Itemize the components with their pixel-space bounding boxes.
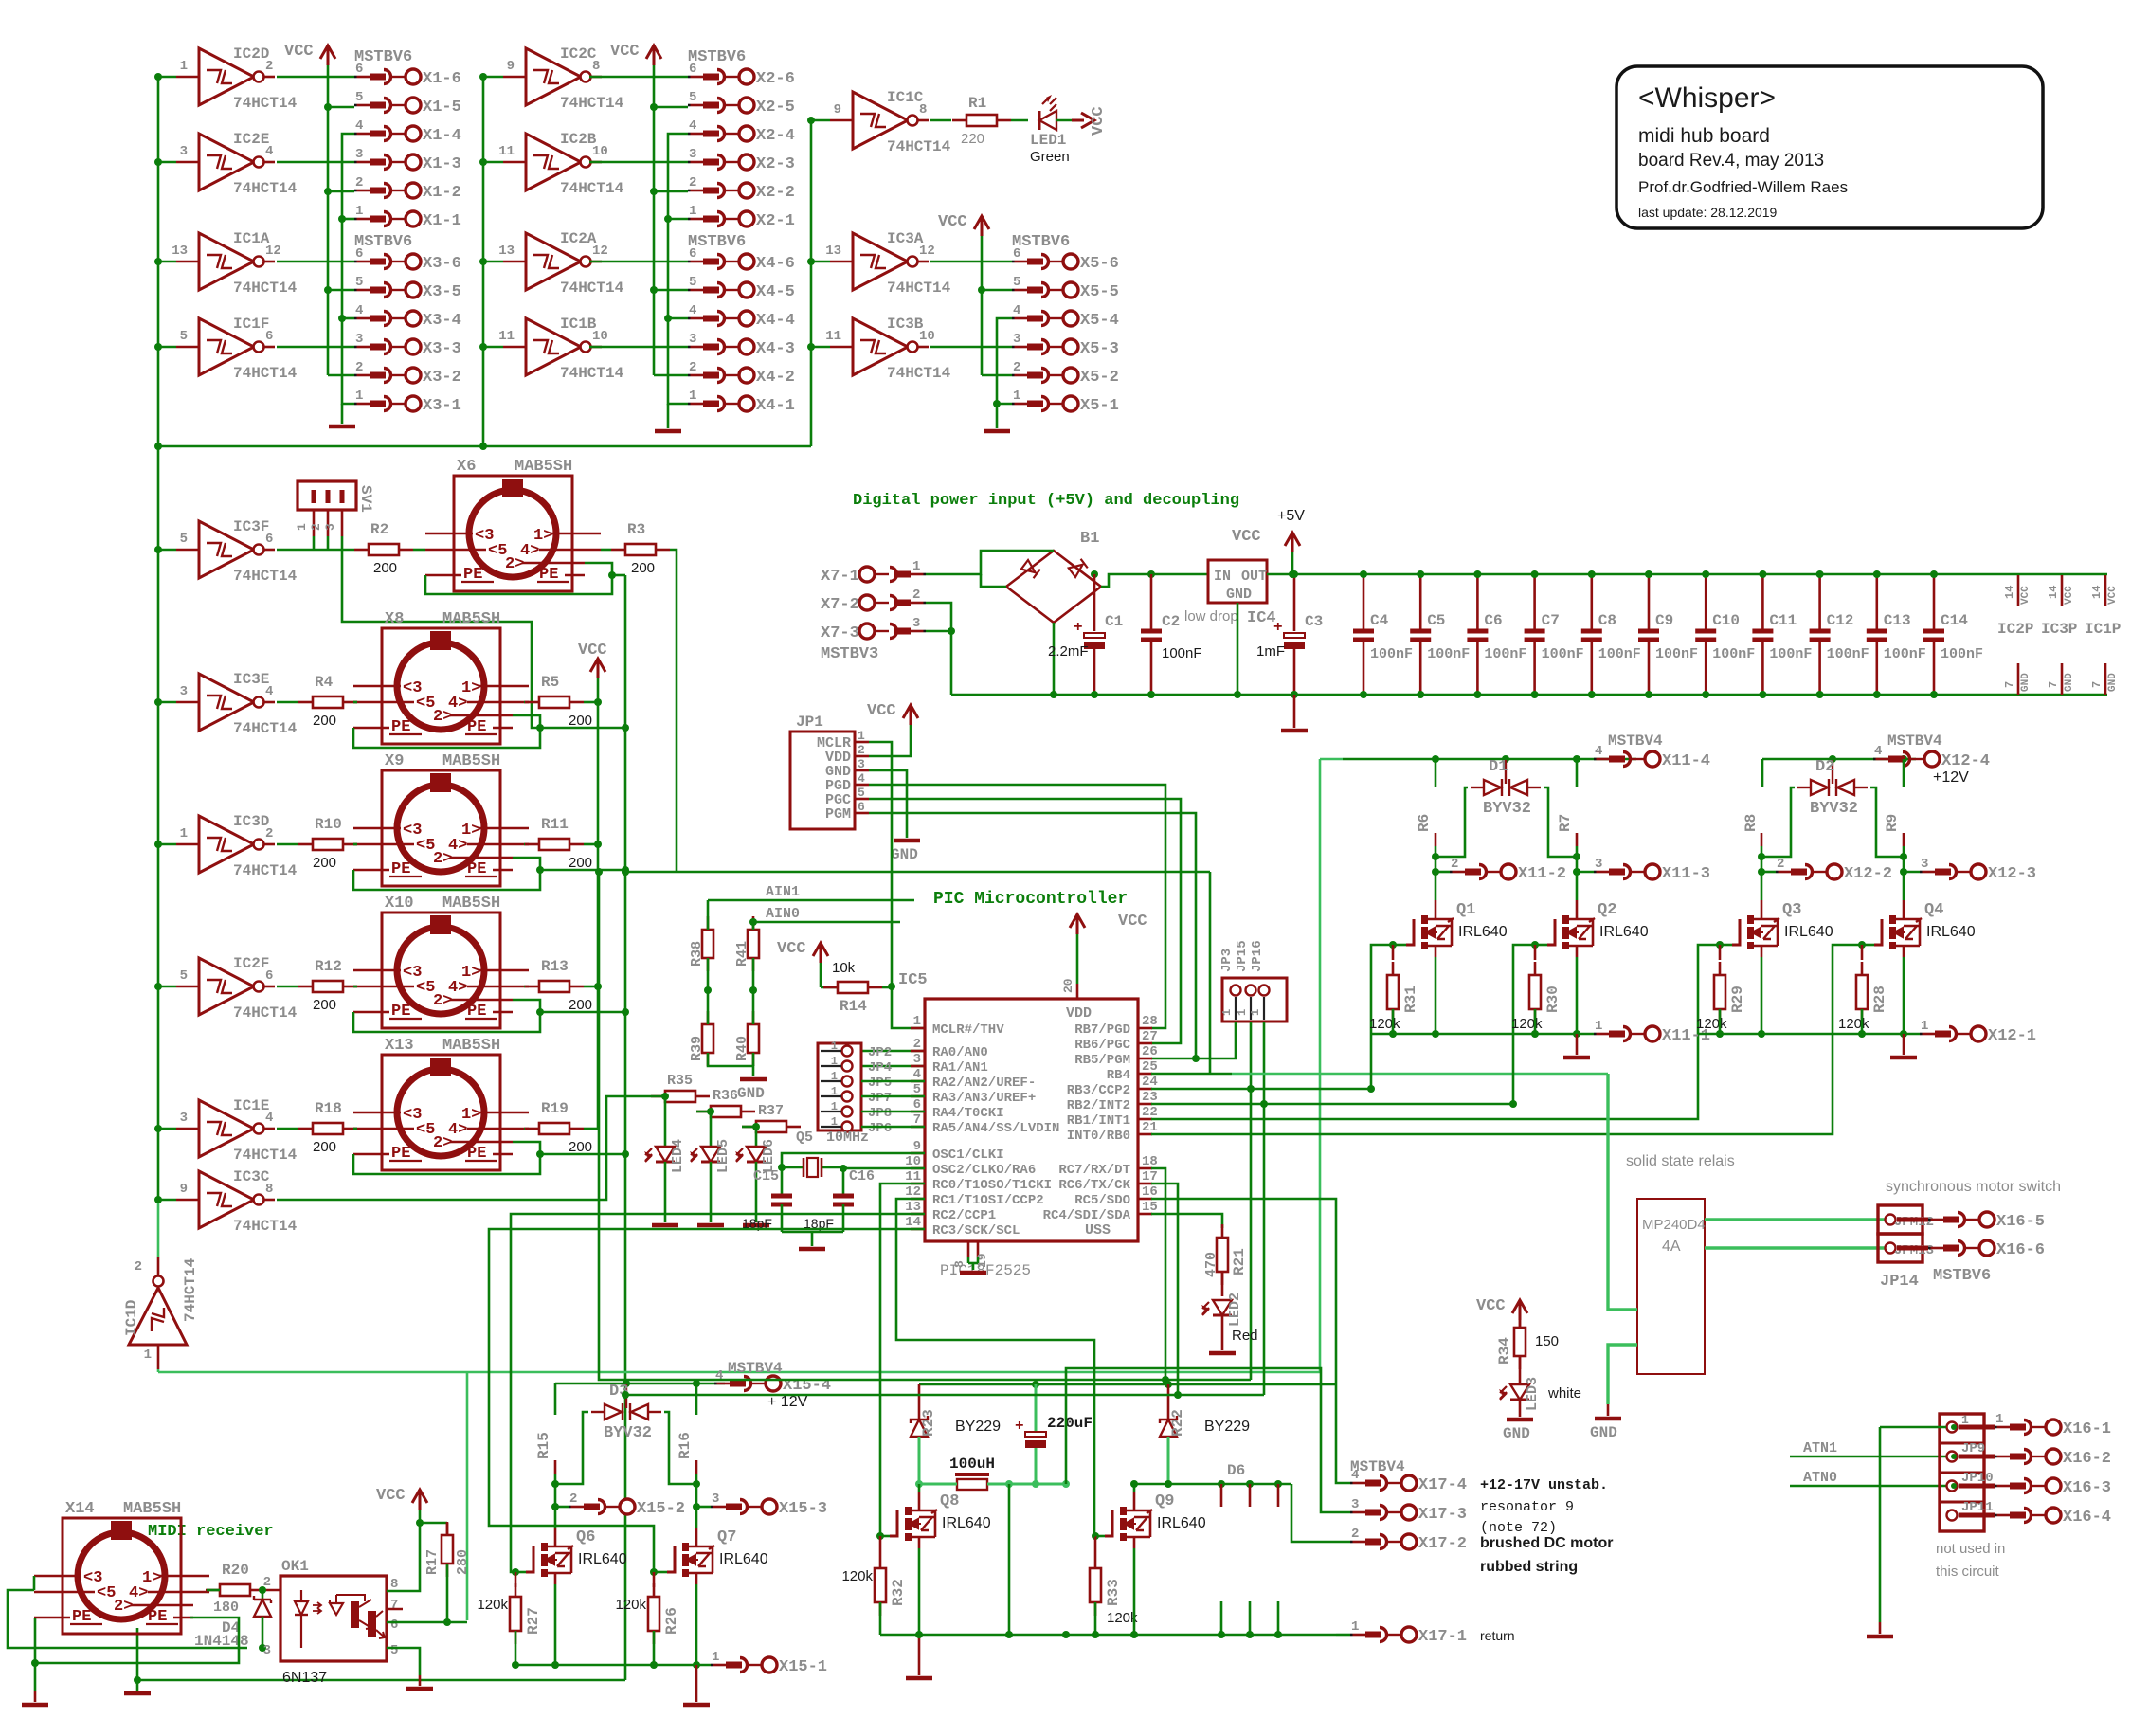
wire JP1 GND	[869, 770, 907, 838]
wire RB2 to Q2 gate	[1151, 945, 1537, 1108]
svg-text:74HCT14: 74HCT14	[233, 1004, 298, 1022]
svg-text:MAB5SH: MAB5SH	[442, 752, 500, 770]
wire X14 pin3 pin5 join	[8, 1576, 247, 1648]
svg-text:IC1C: IC1C	[887, 89, 924, 106]
svg-text:R33: R33	[1105, 1579, 1122, 1606]
resistor R12	[298, 958, 357, 1013]
svg-text:100nF: 100nF	[1655, 646, 1698, 662]
wire inverter to R10	[277, 843, 298, 846]
wire input bus bank1	[154, 77, 811, 1200]
wire Q2 gnd	[1576, 1034, 1579, 1055]
wire Q3 source	[1761, 957, 1763, 1034]
connector pin X2-5	[688, 90, 795, 117]
svg-text:6: 6	[355, 246, 363, 262]
resistor R18	[298, 1100, 357, 1155]
svg-text:74HCT14: 74HCT14	[233, 1147, 298, 1164]
svg-text:1: 1	[831, 1115, 838, 1129]
svg-text:R23: R23	[920, 1409, 937, 1437]
wire X16 gnd	[1879, 1427, 1882, 1634]
svg-text:13: 13	[905, 1200, 921, 1215]
wire X15 bottom rail	[512, 1661, 711, 1669]
svg-text:1: 1	[1249, 1009, 1262, 1016]
svg-text:IC1B: IC1B	[560, 316, 597, 333]
wire OSC1	[782, 1153, 925, 1194]
connector pin X2-2	[688, 175, 795, 202]
wire JP1 VDD	[869, 725, 911, 756]
wire Q4 gnd	[1903, 1034, 1905, 1055]
svg-text:120k: 120k	[1838, 1016, 1869, 1032]
svg-text:3: 3	[1921, 857, 1928, 872]
capacitor C9	[1638, 570, 1698, 698]
svg-text:X4-4: X4-4	[756, 312, 795, 330]
wire JP6 row	[861, 1126, 925, 1129]
label MSTBV6 JP14	[1933, 1267, 1991, 1285]
svg-text:AIN0: AIN0	[766, 906, 800, 922]
svg-text:solid state relais: solid state relais	[1626, 1153, 1735, 1169]
svg-text:IRL640: IRL640	[1157, 1515, 1206, 1531]
svg-text:C8: C8	[1598, 612, 1616, 629]
wire X12 bottom rail	[1698, 1030, 1920, 1038]
svg-text:74HCT14: 74HCT14	[887, 138, 951, 155]
svg-text:200: 200	[373, 560, 397, 576]
svg-text:C11: C11	[1769, 612, 1797, 629]
svg-text:6: 6	[913, 1097, 921, 1112]
wire inverter output	[589, 161, 688, 164]
wire VCC bus bank2	[650, 65, 688, 375]
svg-text:IC2E: IC2E	[233, 131, 269, 148]
svg-text:100nF: 100nF	[1769, 646, 1812, 662]
svg-text:200: 200	[631, 560, 655, 576]
wire DIN PE loop y813	[353, 858, 625, 890]
svg-text:120k: 120k	[1696, 1016, 1727, 1032]
inverter IC3F	[154, 518, 298, 585]
svg-text:C3: C3	[1305, 613, 1323, 630]
svg-text:74HCT14: 74HCT14	[233, 862, 298, 879]
wire inverter output	[589, 261, 688, 263]
wire IC4 out rail	[1267, 570, 2107, 578]
svg-text:C6: C6	[1484, 612, 1502, 629]
svg-text:X16-4: X16-4	[2063, 1509, 2111, 1527]
capacitor C1	[1048, 570, 1123, 698]
svg-text:RB3/CCP2: RB3/CCP2	[1067, 1083, 1130, 1098]
power VCC arrow JP1	[867, 702, 918, 725]
svg-text:RA2/AN2/UREF-: RA2/AN2/UREF-	[932, 1076, 1036, 1091]
svg-text:4: 4	[913, 1067, 921, 1082]
svg-text:21: 21	[1142, 1120, 1158, 1135]
wire inverter output	[277, 261, 354, 263]
wire crystal gnd	[782, 1232, 843, 1246]
wire PE bus to X14	[134, 1628, 625, 1691]
svg-text:5: 5	[180, 329, 188, 344]
connector pin X11-3	[1577, 857, 1710, 883]
svg-text:2: 2	[912, 588, 920, 603]
svg-text:1: 1	[180, 59, 188, 74]
svg-text:X1-1: X1-1	[423, 212, 461, 230]
wire RC5 SDO	[1151, 1199, 1336, 1384]
wire R4 to DIN	[353, 701, 357, 704]
svg-text:X17-2: X17-2	[1418, 1535, 1467, 1553]
svg-text:13: 13	[825, 244, 841, 259]
DIN connector X10	[353, 895, 529, 1028]
wire relais out1	[1705, 1218, 1885, 1221]
wire R12 to DIN	[353, 986, 357, 988]
svg-text:JP8: JP8	[868, 1106, 892, 1121]
svg-text:2: 2	[1013, 360, 1020, 375]
wire inverter output	[930, 346, 1012, 349]
wire R37 in	[742, 1126, 756, 1129]
connector JP2 block	[818, 1040, 892, 1136]
svg-text:2: 2	[309, 523, 323, 531]
wire D3 left	[555, 1412, 588, 1484]
svg-text:4: 4	[1013, 303, 1020, 318]
svg-text:C10: C10	[1712, 612, 1740, 629]
wire inverter to R12	[277, 986, 298, 988]
svg-text:24: 24	[1142, 1075, 1158, 1090]
wire R35 in	[277, 1096, 665, 1200]
svg-text:120k: 120k	[1369, 1016, 1400, 1032]
svg-text:5: 5	[689, 275, 696, 290]
wire X11 rail	[1320, 755, 1636, 763]
svg-text:1: 1	[689, 204, 696, 219]
connector pin X16-5	[1897, 1212, 2045, 1231]
svg-text:1: 1	[912, 559, 920, 574]
capacitor C12	[1810, 570, 1869, 698]
svg-text:C14: C14	[1941, 612, 1968, 629]
label ATN1	[1790, 1440, 1946, 1456]
label AIN0	[753, 906, 900, 930]
svg-text:5: 5	[1013, 275, 1020, 290]
svg-text:X5-3: X5-3	[1080, 340, 1119, 358]
ground Q7	[683, 1703, 710, 1708]
svg-text:MSTBV6: MSTBV6	[1933, 1267, 1991, 1285]
svg-text:11: 11	[498, 329, 515, 344]
svg-text:X14: X14	[65, 1500, 95, 1518]
wire D1 right	[1544, 787, 1577, 857]
wire inverter output	[277, 346, 354, 349]
svg-text:1: 1	[689, 389, 696, 404]
power VCC right IC1C	[1072, 106, 1108, 136]
wire RB3 to Q1 gate	[1151, 945, 1395, 1093]
svg-text:JP2: JP2	[868, 1045, 892, 1060]
svg-text:IC2C: IC2C	[560, 45, 597, 63]
svg-text:JP6: JP6	[868, 1121, 892, 1136]
svg-text:VCC: VCC	[1090, 106, 1108, 136]
wire Q2 drain node	[1573, 853, 1580, 900]
ground LED4	[652, 1223, 678, 1228]
wire Q9 drain row	[1130, 1480, 1291, 1488]
svg-text:R20: R20	[222, 1562, 249, 1579]
svg-text:MP240D4: MP240D4	[1642, 1217, 1706, 1233]
wire RX vertical right	[1209, 872, 1212, 1074]
wire R38 R39 junction	[704, 958, 712, 1024]
wire Q3 gate	[1716, 941, 1732, 949]
section label power	[853, 492, 1239, 510]
ground Q8	[906, 1676, 932, 1681]
svg-text:JP4: JP4	[868, 1060, 892, 1076]
wire R14 to MCLR	[882, 986, 892, 989]
svg-text:low drop: low drop	[1184, 608, 1238, 624]
svg-text:15: 15	[1142, 1200, 1158, 1215]
resistor R30	[1511, 945, 1562, 1034]
svg-text:120k: 120k	[477, 1597, 508, 1613]
svg-text:this circuit: this circuit	[1936, 1564, 2000, 1580]
svg-text:14: 14	[2090, 586, 2104, 599]
svg-text:1: 1	[1921, 1019, 1928, 1034]
svg-text:4: 4	[355, 303, 363, 318]
connector pin X16-4	[1959, 1508, 2111, 1527]
svg-text:R6: R6	[1416, 814, 1433, 832]
svg-text:X3-2: X3-2	[423, 369, 461, 387]
svg-text:X2-2: X2-2	[756, 184, 795, 202]
svg-text:RC7/RX/DT: RC7/RX/DT	[1058, 1163, 1130, 1178]
svg-text:3: 3	[689, 147, 696, 162]
svg-text:JPM12: JPM12	[1894, 1215, 1934, 1230]
LED LED6	[735, 1127, 777, 1173]
svg-text:X17-3: X17-3	[1418, 1506, 1467, 1524]
svg-text:4: 4	[1874, 744, 1882, 759]
wire RC0 to Q8 gate	[880, 1184, 925, 1536]
svg-text:VCC: VCC	[1118, 913, 1147, 931]
svg-text:1N4148: 1N4148	[194, 1633, 249, 1650]
optocoupler OK1	[280, 1558, 387, 1686]
capacitor 220uF	[1015, 1384, 1093, 1488]
capacitor C6	[1467, 570, 1526, 698]
svg-text:X2-1: X2-1	[756, 212, 795, 230]
svg-text:4: 4	[715, 1368, 723, 1383]
svg-text:C9: C9	[1655, 612, 1673, 629]
svg-text:IC1D: IC1D	[123, 1300, 140, 1336]
label R2	[370, 521, 397, 576]
connector X7 label	[821, 645, 878, 663]
capacitor C2	[1141, 574, 1202, 698]
svg-text:25: 25	[1142, 1059, 1158, 1075]
svg-text:R19: R19	[541, 1100, 569, 1117]
svg-text:D2: D2	[1815, 758, 1834, 776]
wire OK1 pin5 gnd	[387, 1648, 420, 1686]
svg-text:IRL640: IRL640	[719, 1551, 768, 1567]
wire OK1 pin7 stub	[387, 1608, 403, 1611]
svg-text:180: 180	[213, 1600, 239, 1616]
wire X6 PE loop	[425, 563, 625, 594]
wire RX net	[595, 868, 1251, 1383]
svg-text:2: 2	[858, 743, 865, 757]
svg-text:BY229: BY229	[1204, 1419, 1250, 1435]
wire B1 plus to IC4	[1101, 570, 1208, 587]
svg-text:200: 200	[569, 855, 592, 871]
svg-text:100nF: 100nF	[1542, 646, 1584, 662]
wire Q7 gate	[650, 1568, 667, 1576]
ground bank1	[329, 425, 355, 429]
wire JP8 row	[861, 1111, 925, 1113]
wire Q2 gate	[1531, 941, 1547, 949]
svg-text:6: 6	[689, 246, 696, 262]
wire VCC bus X5	[978, 236, 1012, 375]
wire JP15 to RB3	[1247, 1022, 1255, 1380]
svg-text:IC3C: IC3C	[233, 1168, 270, 1185]
svg-text:X5-5: X5-5	[1080, 283, 1119, 301]
svg-text:1: 1	[831, 1055, 838, 1068]
capacitor C13	[1867, 570, 1926, 698]
wire SV1 pin3 down	[342, 550, 540, 728]
svg-text:2: 2	[1777, 857, 1784, 872]
connector pin X3-4	[354, 303, 461, 330]
inverter IC2E	[154, 131, 298, 197]
wire X17-4 feed	[1336, 1384, 1350, 1483]
svg-text:R27: R27	[525, 1607, 542, 1635]
svg-text:4: 4	[689, 118, 696, 134]
resistor R21	[1203, 1224, 1248, 1296]
ground X14 shield	[124, 1691, 151, 1696]
svg-text:1: 1	[180, 826, 188, 841]
svg-text:RA1/AN1: RA1/AN1	[932, 1060, 988, 1076]
connector pin X1-6	[354, 62, 461, 88]
label AIN1	[708, 884, 914, 930]
svg-text:IRL640: IRL640	[942, 1515, 991, 1531]
svg-text:74HCT14: 74HCT14	[887, 365, 951, 382]
svg-text:GND: GND	[2064, 673, 2075, 692]
connector pin X4-3	[688, 332, 795, 358]
svg-text:BY229: BY229	[955, 1419, 1001, 1435]
svg-text:synchronous motor switch: synchronous motor switch	[1886, 1179, 2061, 1195]
wire IC3F out to SV1	[277, 536, 354, 550]
inverter IC3E	[154, 671, 298, 737]
svg-text:LED3: LED3	[1525, 1377, 1541, 1411]
svg-text:1: 1	[1351, 1619, 1359, 1635]
wire R36 in	[696, 1111, 711, 1113]
DIN connector X8	[353, 610, 529, 744]
wire X16-1 feed	[1880, 1424, 1957, 1489]
svg-text:RC4/SDI/SDA: RC4/SDI/SDA	[1043, 1208, 1131, 1223]
wire Q8 source	[918, 1548, 921, 1635]
svg-text:VCC: VCC	[2064, 586, 2075, 605]
svg-text:LED5: LED5	[715, 1139, 731, 1173]
svg-text:IC3D: IC3D	[233, 813, 269, 830]
wire IC4 GND	[1234, 603, 1241, 698]
svg-text:2: 2	[1351, 1527, 1359, 1542]
svg-text:RB5/PGM: RB5/PGM	[1074, 1053, 1130, 1068]
diode array D6 stubs	[1221, 1484, 1278, 1635]
resistor R28	[1838, 945, 1888, 1034]
svg-text:R41: R41	[734, 941, 750, 967]
wire Q6 source	[554, 1584, 557, 1665]
svg-text:6: 6	[1013, 246, 1020, 262]
svg-text:ATN1: ATN1	[1803, 1440, 1837, 1456]
LED LED3	[1499, 1377, 1581, 1417]
svg-text:R28: R28	[1871, 986, 1888, 1013]
wire R18 to DIN	[353, 1128, 357, 1130]
svg-text:200: 200	[313, 855, 336, 871]
svg-text:X2-6: X2-6	[756, 70, 795, 88]
svg-text:rubbed string: rubbed string	[1480, 1559, 1578, 1575]
svg-text:100nF: 100nF	[1884, 646, 1926, 662]
svg-text:IC2B: IC2B	[560, 131, 597, 148]
svg-text:R30: R30	[1544, 986, 1562, 1013]
svg-text:18: 18	[1142, 1154, 1158, 1169]
wire R41 R40 junction	[749, 918, 757, 1024]
diode R23 BY229	[911, 1384, 1001, 1484]
svg-text:74HCT14: 74HCT14	[233, 95, 298, 112]
svg-text:2>: 2>	[433, 850, 452, 868]
ground relais	[1590, 1419, 1621, 1441]
svg-text:R29: R29	[1729, 986, 1746, 1013]
svg-text:VCC: VCC	[1476, 1297, 1506, 1315]
resistor R41	[734, 916, 759, 971]
wire DIN to R11	[524, 843, 525, 846]
resistor R34	[1496, 1314, 1559, 1384]
connector pin X3-5	[354, 275, 461, 301]
connector pin X3-2	[354, 360, 461, 387]
svg-text:5: 5	[355, 90, 363, 105]
svg-text:1: 1	[1995, 1412, 2003, 1427]
svg-text:IC4: IC4	[1247, 609, 1276, 627]
bridge rectifier B1	[1006, 530, 1101, 623]
svg-text:22: 22	[1142, 1105, 1158, 1120]
power pins IC2P	[1997, 575, 2033, 695]
svg-text:R12: R12	[315, 958, 342, 975]
power VCC arrow OK1	[376, 1487, 427, 1510]
svg-text:X16-5: X16-5	[1996, 1213, 2045, 1231]
svg-text:+12-17V unstab.: +12-17V unstab.	[1480, 1477, 1608, 1493]
svg-text:74HCT14: 74HCT14	[560, 95, 624, 112]
svg-text:X2-5: X2-5	[756, 99, 795, 117]
svg-text:100nF: 100nF	[1712, 646, 1755, 662]
svg-text:BYV32: BYV32	[1483, 800, 1531, 818]
svg-text:+: +	[1273, 619, 1283, 636]
svg-text:MAB5SH: MAB5SH	[442, 895, 500, 913]
svg-text:13: 13	[498, 244, 515, 259]
ground LED6	[743, 1223, 769, 1228]
svg-text:RB7/PGD: RB7/PGD	[1074, 1022, 1130, 1038]
wire DIN PE loop y963	[353, 1000, 625, 1032]
wire relais control	[1608, 1074, 1637, 1310]
inverter IC1B	[479, 316, 624, 382]
wire X7-1 to B1	[926, 551, 1054, 587]
svg-text:VCC: VCC	[284, 43, 314, 61]
wire bus to IC1D	[157, 1200, 160, 1257]
power VCC arrow bank1	[284, 43, 335, 65]
wire X6 pin4 to R3	[601, 549, 611, 552]
svg-text:+ 12V: + 12V	[767, 1394, 808, 1410]
transistor Q3	[1732, 900, 1833, 957]
svg-text:R26: R26	[663, 1607, 680, 1635]
LED LED5	[690, 1112, 731, 1173]
svg-text:1: 1	[831, 1100, 838, 1113]
wire Q7 drain node	[693, 1480, 700, 1528]
svg-text:X17-4: X17-4	[1418, 1476, 1467, 1494]
label solid state relais	[1626, 1153, 1735, 1169]
svg-text:R2: R2	[370, 521, 388, 538]
svg-text:14: 14	[2003, 586, 2016, 599]
wire Q4 gate	[1858, 941, 1874, 949]
svg-text:R34: R34	[1496, 1337, 1513, 1365]
wire 220uF return	[1008, 1484, 1011, 1635]
connector pin X11-1	[1594, 1019, 1710, 1045]
svg-text:1mF: 1mF	[1256, 643, 1285, 660]
svg-text:VCC: VCC	[376, 1487, 406, 1505]
connector pin X4-4	[688, 303, 795, 330]
wire inverter to R4	[277, 701, 298, 704]
svg-text:X3-3: X3-3	[423, 340, 461, 358]
connector pin X4-1	[688, 389, 795, 415]
solid state relay MP240D4	[1637, 1199, 1706, 1374]
svg-text:LED4: LED4	[670, 1139, 686, 1173]
svg-text:X8: X8	[385, 610, 404, 628]
wire DIN to R19	[524, 1128, 525, 1130]
wire Q2 source	[1576, 957, 1579, 1034]
wire TX net	[622, 1184, 1264, 1399]
wire Q4 drain node	[1900, 853, 1907, 900]
wire Q1 gate	[1389, 941, 1406, 949]
